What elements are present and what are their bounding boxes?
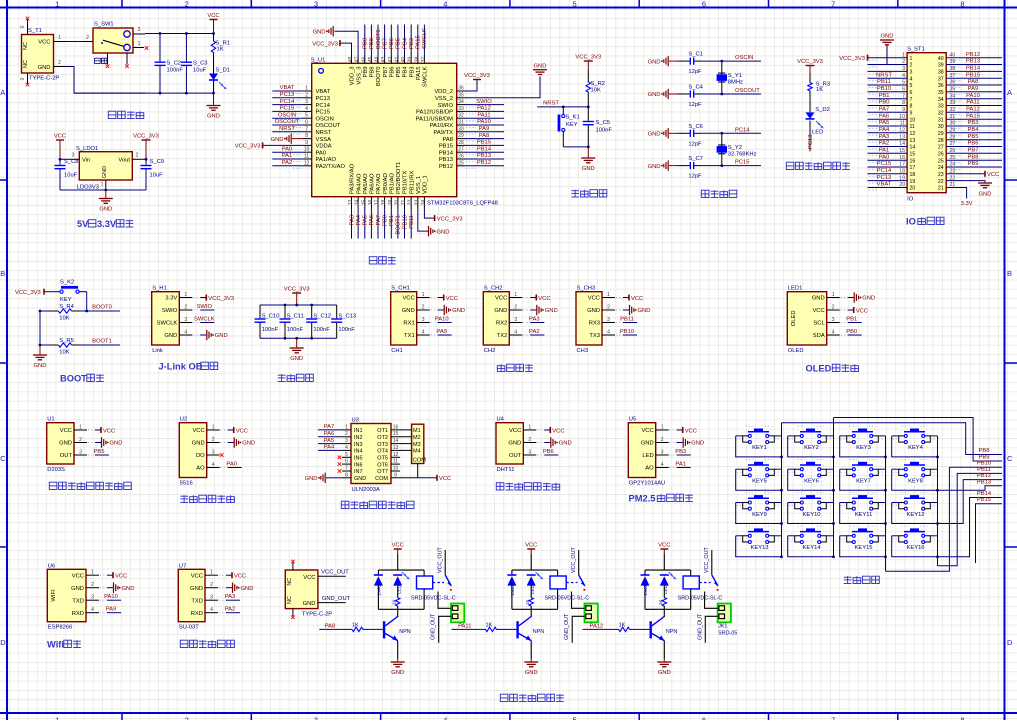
svg-text:22: 22 (408, 199, 414, 205)
svg-text:M2: M2 (413, 435, 421, 441)
svg-text:1K: 1K (816, 87, 823, 93)
svg-text:KEY3: KEY3 (856, 445, 871, 451)
svg-text:SWIO: SWIO (438, 103, 454, 109)
svg-text:PA7: PA7 (324, 424, 335, 430)
svg-text:GND: GND (648, 92, 661, 98)
svg-text:3.3V: 3.3V (961, 201, 973, 207)
svg-text:30: 30 (458, 126, 464, 132)
svg-text:IO: IO (906, 217, 916, 227)
svg-text:2: 2 (832, 305, 835, 311)
svg-text:PC13: PC13 (280, 92, 295, 98)
svg-text:VCC: VCC (525, 543, 537, 549)
svg-text:VCC_3V3: VCC_3V3 (133, 134, 159, 140)
svg-text:RXD: RXD (191, 611, 203, 617)
svg-text:PA4: PA4 (356, 214, 362, 225)
svg-text:PB8: PB8 (968, 154, 979, 160)
svg-text:S_Y2: S_Y2 (728, 145, 742, 151)
svg-text:GND: GND (71, 586, 84, 592)
svg-text:46: 46 (361, 57, 367, 63)
svg-text:8: 8 (305, 133, 308, 139)
svg-text:VCC_3V3: VCC_3V3 (464, 73, 490, 79)
svg-text:OLED: OLED (806, 364, 832, 374)
svg-text:10uF: 10uF (150, 173, 164, 179)
svg-text:3: 3 (314, 0, 318, 9)
svg-text:100nF: 100nF (167, 68, 184, 74)
svg-text:PB15: PB15 (966, 72, 980, 78)
svg-text:VCC: VCC (236, 428, 248, 434)
svg-text:7: 7 (902, 93, 905, 99)
svg-text:PB11: PB11 (620, 317, 634, 323)
svg-text:3: 3 (345, 438, 348, 444)
svg-text:DO: DO (196, 453, 205, 459)
svg-text:1: 1 (514, 292, 517, 298)
svg-text:SCL: SCL (813, 321, 825, 327)
svg-text:PB14: PB14 (977, 491, 992, 497)
svg-text:D: D (0, 638, 6, 647)
svg-text:PB14: PB14 (966, 66, 981, 72)
svg-text:OSCOUT: OSCOUT (316, 123, 341, 129)
svg-text:GND: GND (391, 670, 404, 676)
svg-text:KEY8: KEY8 (908, 479, 923, 485)
svg-text:15: 15 (361, 199, 367, 205)
svg-text:GND_OUT: GND_OUT (564, 613, 570, 640)
svg-text:GND: GND (691, 441, 704, 447)
svg-text:PB11: PB11 (877, 79, 891, 85)
svg-text:14: 14 (910, 145, 916, 151)
svg-text:ESP8266: ESP8266 (48, 625, 73, 631)
svg-text:PA1: PA1 (879, 148, 890, 154)
svg-text:SWIO: SWIO (162, 308, 178, 314)
svg-text:18: 18 (899, 169, 905, 175)
svg-text:36: 36 (458, 86, 464, 92)
svg-text:PA10: PA10 (104, 594, 118, 600)
svg-text:PB3: PB3 (409, 67, 415, 78)
svg-text:NPN: NPN (399, 629, 410, 635)
svg-text:NRST: NRST (876, 72, 892, 78)
svg-text:S_D2: S_D2 (815, 107, 830, 113)
svg-text:PB1: PB1 (879, 93, 890, 99)
svg-text:LED1: LED1 (788, 286, 803, 292)
svg-text:KEY7: KEY7 (856, 479, 871, 485)
svg-text:C: C (1007, 454, 1013, 463)
svg-text:PB3: PB3 (968, 120, 979, 126)
svg-text:CH2: CH2 (484, 348, 496, 354)
svg-text:24: 24 (938, 165, 944, 171)
svg-text:GND: GND (534, 64, 547, 70)
svg-text:S_C9: S_C9 (150, 159, 165, 165)
svg-text:COM: COM (375, 476, 388, 482)
svg-text:VCC: VCC (402, 296, 414, 302)
svg-text:13: 13 (348, 199, 354, 205)
svg-text:17: 17 (375, 199, 381, 205)
svg-text:VCC: VCC (72, 573, 84, 579)
svg-text:U7: U7 (179, 563, 186, 569)
svg-text:5: 5 (345, 452, 348, 458)
svg-text:PC15: PC15 (316, 110, 331, 116)
svg-text:IN1: IN1 (354, 428, 363, 434)
svg-text:4: 4 (443, 716, 447, 721)
svg-text:12pF: 12pF (688, 141, 702, 147)
svg-text:PA15: PA15 (966, 113, 980, 119)
svg-text:PA9: PA9 (479, 126, 490, 132)
svg-text:SWCLK: SWCLK (423, 66, 429, 87)
svg-text:47: 47 (355, 57, 361, 63)
svg-text:BOOT: BOOT (60, 374, 87, 384)
svg-text:VCC_3V3: VCC_3V3 (208, 296, 234, 302)
svg-text:PB8: PB8 (370, 67, 376, 78)
svg-text:4: 4 (832, 330, 835, 336)
svg-text:12pF: 12pF (688, 69, 702, 75)
svg-text:VCC: VCC (191, 573, 203, 579)
svg-text:VCC_OUT: VCC_OUT (704, 547, 710, 573)
svg-text:GND: GND (437, 229, 450, 235)
svg-text:PB13: PB13 (966, 59, 980, 65)
svg-text:BOOT1: BOOT1 (396, 215, 402, 235)
svg-text:9: 9 (305, 140, 308, 146)
svg-text:OT4: OT4 (377, 449, 388, 455)
svg-text:5: 5 (902, 80, 905, 86)
svg-text:PC14: PC14 (280, 99, 295, 105)
svg-text:NC: NC (287, 578, 293, 586)
svg-text:2: 2 (607, 305, 610, 311)
svg-text:PA7: PA7 (376, 215, 382, 226)
svg-text:3.3V: 3.3V (97, 219, 117, 229)
svg-text:19: 19 (910, 179, 916, 185)
svg-text:VCC: VCC (54, 134, 66, 140)
svg-text:4: 4 (661, 462, 664, 468)
svg-text:GND: GND (305, 476, 318, 482)
svg-text:IO: IO (907, 197, 914, 203)
svg-text:2: 2 (58, 60, 61, 66)
svg-text:3: 3 (72, 153, 75, 159)
svg-text:PA4/AO: PA4/AO (356, 173, 362, 194)
svg-text:4: 4 (345, 445, 348, 451)
svg-text:VCC: VCC (192, 428, 204, 434)
svg-text:GND_OUT: GND_OUT (431, 613, 437, 640)
svg-text:PA12: PA12 (966, 107, 980, 113)
svg-text:GND: GND (303, 601, 316, 607)
svg-text:PA10: PA10 (966, 93, 980, 99)
svg-text:PB15: PB15 (477, 140, 491, 146)
svg-text:1: 1 (210, 570, 213, 576)
svg-text:VDDA: VDDA (316, 144, 332, 150)
svg-text:RX3: RX3 (589, 321, 600, 327)
svg-text:VCC: VCC (207, 13, 219, 19)
svg-text:AO: AO (645, 466, 654, 472)
svg-text:6: 6 (305, 120, 308, 126)
svg-text:PA6: PA6 (879, 113, 890, 119)
svg-text:PB13: PB13 (439, 157, 453, 163)
svg-text:PA2/TX/AO: PA2/TX/AO (316, 164, 346, 170)
svg-text:2: 2 (305, 92, 308, 98)
svg-text:5516: 5516 (180, 481, 193, 487)
svg-text:VCC: VCC (509, 428, 521, 434)
svg-text:7: 7 (305, 126, 308, 132)
svg-text:VBAT: VBAT (877, 182, 892, 188)
svg-text:4: 4 (607, 330, 610, 336)
svg-text:GND: GND (582, 166, 595, 172)
svg-text:PA10: PA10 (477, 119, 491, 125)
svg-text:S_R2: S_R2 (591, 81, 606, 87)
svg-text:18: 18 (910, 172, 916, 178)
svg-text:OT5: OT5 (377, 456, 388, 462)
svg-text:PB9: PB9 (363, 38, 369, 49)
svg-text:3: 3 (910, 70, 913, 76)
svg-text:GND: GND (190, 586, 203, 592)
svg-text:GND: GND (648, 164, 661, 170)
svg-text:VCC_OUT: VCC_OUT (438, 547, 444, 573)
svg-text:2: 2 (79, 437, 82, 443)
svg-text:3: 3 (91, 595, 94, 601)
svg-text:15: 15 (910, 152, 916, 158)
svg-text:GND: GND (508, 441, 521, 447)
svg-text:PA5: PA5 (324, 438, 335, 444)
svg-text:PA5/AO: PA5/AO (363, 173, 369, 194)
svg-text:GND: GND (648, 132, 661, 138)
svg-text:PA12: PA12 (590, 623, 604, 629)
svg-text:OSCOUT: OSCOUT (735, 88, 760, 94)
svg-text:PB0: PB0 (846, 329, 857, 335)
svg-text:NRST: NRST (279, 126, 295, 132)
svg-text:PA9: PA9 (106, 607, 117, 613)
svg-text:4: 4 (305, 106, 308, 112)
svg-text:KEY5: KEY5 (752, 479, 767, 485)
svg-text:PB4: PB4 (402, 37, 408, 49)
svg-text:8: 8 (910, 104, 913, 110)
svg-text:20: 20 (394, 199, 400, 205)
svg-text:PB9: PB9 (979, 455, 990, 461)
svg-text:VCC_3V3: VCC_3V3 (235, 144, 261, 150)
svg-text:PA6/AO: PA6/AO (370, 173, 376, 194)
svg-text:12pF: 12pF (688, 102, 702, 108)
svg-text:OT3: OT3 (377, 442, 388, 448)
svg-text:PB10: PB10 (620, 329, 634, 335)
svg-text:2: 2 (422, 305, 425, 311)
svg-text:21: 21 (938, 186, 944, 192)
svg-text:35: 35 (458, 92, 464, 98)
svg-text:45: 45 (368, 57, 374, 63)
svg-text:PB10/TX: PB10/TX (403, 171, 409, 194)
svg-text:PA11: PA11 (477, 112, 490, 118)
svg-text:PB7: PB7 (382, 38, 388, 49)
svg-text:VCC: VCC (552, 428, 564, 434)
svg-text:PC14: PC14 (877, 168, 892, 174)
svg-text:GND: GND (38, 65, 51, 71)
svg-text:OT1: OT1 (377, 428, 388, 434)
svg-text:41: 41 (394, 57, 400, 63)
svg-text:5V: 5V (77, 219, 89, 229)
svg-text:39: 39 (408, 57, 414, 63)
svg-text:8MHz: 8MHz (728, 80, 743, 86)
svg-text:BOOT1: BOOT1 (92, 339, 112, 345)
svg-text:GND_OUT: GND_OUT (697, 613, 703, 640)
svg-text:BOOT0: BOOT0 (376, 67, 382, 87)
svg-text:13: 13 (910, 138, 916, 144)
svg-text:10uF: 10uF (64, 173, 78, 179)
svg-text:TX2: TX2 (497, 333, 508, 339)
svg-text:S_H1: S_H1 (152, 286, 167, 292)
svg-text:KEY9: KEY9 (752, 512, 767, 518)
svg-text:40: 40 (401, 57, 407, 63)
svg-text:3: 3 (210, 595, 213, 601)
svg-text:SWIO: SWIO (476, 99, 492, 105)
svg-text:31: 31 (458, 120, 464, 126)
svg-text:S_R5: S_R5 (59, 338, 74, 344)
svg-text:GND: GND (559, 441, 572, 447)
svg-text:16: 16 (899, 155, 905, 161)
svg-text:PA15: PA15 (416, 35, 422, 49)
svg-text:6: 6 (902, 87, 905, 93)
svg-text:VCC: VCC (103, 428, 115, 434)
svg-text:VBAT: VBAT (316, 89, 331, 95)
svg-text:VDD_1: VDD_1 (423, 175, 429, 194)
svg-text:32: 32 (458, 113, 464, 119)
svg-text:U6: U6 (48, 563, 55, 569)
svg-text:S_D1: S_D1 (216, 68, 231, 74)
svg-text:25: 25 (458, 160, 464, 166)
svg-text:D: D (1007, 638, 1013, 647)
svg-text:VCC: VCC (115, 574, 127, 580)
svg-text:S_C13: S_C13 (338, 314, 356, 320)
svg-text:17: 17 (899, 162, 905, 168)
svg-text:33: 33 (938, 104, 944, 110)
svg-text:PA3: PA3 (349, 215, 355, 226)
svg-text:1: 1 (422, 292, 425, 298)
svg-text:23: 23 (414, 199, 420, 205)
svg-text:10: 10 (899, 114, 905, 120)
svg-text:6: 6 (702, 716, 706, 721)
svg-text:36: 36 (938, 83, 944, 89)
svg-text:VCC_3V3: VCC_3V3 (312, 41, 338, 47)
svg-text:3: 3 (514, 317, 517, 323)
svg-text:VCC: VCC (658, 543, 670, 549)
svg-text:VCC: VCC (439, 476, 451, 482)
svg-text:SRD-05VDC-SL-C: SRD-05VDC-SL-C (545, 596, 590, 602)
svg-text:8: 8 (902, 100, 905, 106)
svg-text:GND: GND (290, 356, 303, 362)
svg-text:VCC: VCC (538, 296, 550, 302)
svg-text:SU-03T: SU-03T (179, 625, 199, 631)
svg-text:WIFI: WIFI (51, 589, 57, 602)
svg-text:S_C6: S_C6 (688, 124, 703, 130)
svg-text:KEY10: KEY10 (802, 512, 820, 518)
svg-text:5: 5 (573, 0, 577, 9)
svg-text:38: 38 (938, 70, 944, 76)
svg-text:OLED: OLED (788, 348, 804, 354)
svg-text:2: 2 (210, 582, 213, 588)
svg-text:PA7: PA7 (879, 107, 890, 113)
svg-text:30: 30 (938, 124, 944, 130)
svg-text:VDD_2: VDD_2 (434, 89, 453, 95)
svg-text:1: 1 (138, 41, 141, 47)
svg-text:25: 25 (938, 158, 944, 164)
svg-text:3: 3 (902, 66, 905, 72)
svg-text:RXD: RXD (72, 611, 84, 617)
svg-text:PB6: PB6 (968, 141, 979, 147)
svg-text:10K: 10K (591, 88, 601, 94)
svg-text:GP2Y1014AU: GP2Y1014AU (629, 481, 665, 487)
svg-text:S_SW1: S_SW1 (94, 22, 114, 28)
svg-text:U4: U4 (497, 417, 505, 423)
svg-text:10uF: 10uF (193, 68, 207, 74)
svg-text:3: 3 (314, 716, 318, 721)
svg-text:NPN: NPN (533, 629, 544, 635)
svg-text:GND: GND (525, 670, 538, 676)
svg-text:PB0: PB0 (879, 100, 890, 106)
svg-text:PB7: PB7 (968, 148, 979, 154)
svg-text:PB13: PB13 (477, 153, 491, 159)
svg-text:VCC: VCC (685, 428, 697, 434)
svg-text:1: 1 (910, 56, 913, 62)
svg-text:VCC: VCC (588, 296, 600, 302)
svg-text:GND: GND (402, 308, 415, 314)
svg-text:S_CH2: S_CH2 (484, 286, 503, 292)
svg-text:39: 39 (938, 63, 944, 69)
svg-text:4: 4 (910, 76, 913, 82)
svg-text:4: 4 (422, 330, 425, 336)
svg-text:14: 14 (899, 141, 905, 147)
svg-text:2: 2 (91, 582, 94, 588)
svg-text:PB8: PB8 (369, 38, 375, 49)
svg-text:PC15: PC15 (280, 106, 295, 112)
svg-text:PA6: PA6 (324, 431, 335, 437)
svg-text:PB10: PB10 (402, 215, 408, 229)
svg-text:S_ST1: S_ST1 (907, 47, 925, 53)
svg-text:26: 26 (938, 152, 944, 158)
svg-text:37: 37 (938, 76, 944, 82)
svg-text:VCC: VCC (641, 428, 653, 434)
svg-text:S_C1: S_C1 (688, 52, 703, 58)
svg-text:VCC: VCC (446, 296, 458, 302)
svg-text:VCC_3V3: VCC_3V3 (575, 55, 601, 61)
svg-text:8: 8 (345, 472, 348, 478)
svg-text:S_C7: S_C7 (688, 156, 703, 162)
svg-text:1K: 1K (525, 598, 530, 605)
svg-text:4: 4 (902, 73, 905, 79)
svg-text:PA5: PA5 (363, 215, 369, 226)
svg-text:29: 29 (458, 133, 464, 139)
svg-text:M3: M3 (413, 442, 421, 448)
svg-text:29: 29 (938, 131, 944, 137)
svg-text:KEY14: KEY14 (802, 545, 821, 551)
svg-text:26: 26 (458, 154, 464, 160)
svg-text:U5: U5 (629, 417, 636, 423)
svg-text:100nF: 100nF (287, 327, 304, 333)
svg-text:PA2: PA2 (879, 141, 890, 147)
svg-text:Wifi: Wifi (47, 640, 64, 650)
svg-text:PA12/USB/DP: PA12/USB/DP (416, 110, 453, 116)
svg-text:6: 6 (702, 0, 706, 9)
svg-text:KEY: KEY (566, 122, 578, 128)
svg-text:PA5: PA5 (879, 120, 890, 126)
svg-text:PB4: PB4 (403, 66, 409, 78)
svg-text:PA11: PA11 (458, 623, 471, 629)
svg-text:Vin: Vin (82, 158, 90, 164)
svg-text:16: 16 (368, 199, 374, 205)
svg-text:TXD: TXD (72, 598, 84, 604)
svg-text:10: 10 (304, 147, 310, 153)
svg-text:PA8: PA8 (479, 133, 490, 139)
svg-text:27: 27 (458, 147, 464, 153)
svg-text:VCC: VCC (392, 543, 404, 549)
svg-text:2: 2 (212, 437, 215, 443)
svg-text:GND: GND (658, 670, 671, 676)
svg-text:OUT: OUT (60, 453, 73, 459)
svg-text:7: 7 (910, 97, 913, 103)
svg-text:2: 2 (184, 305, 187, 311)
svg-text:S_C10: S_C10 (262, 314, 280, 320)
svg-text:SRD-05VDC-SL-C: SRD-05VDC-SL-C (411, 596, 456, 602)
